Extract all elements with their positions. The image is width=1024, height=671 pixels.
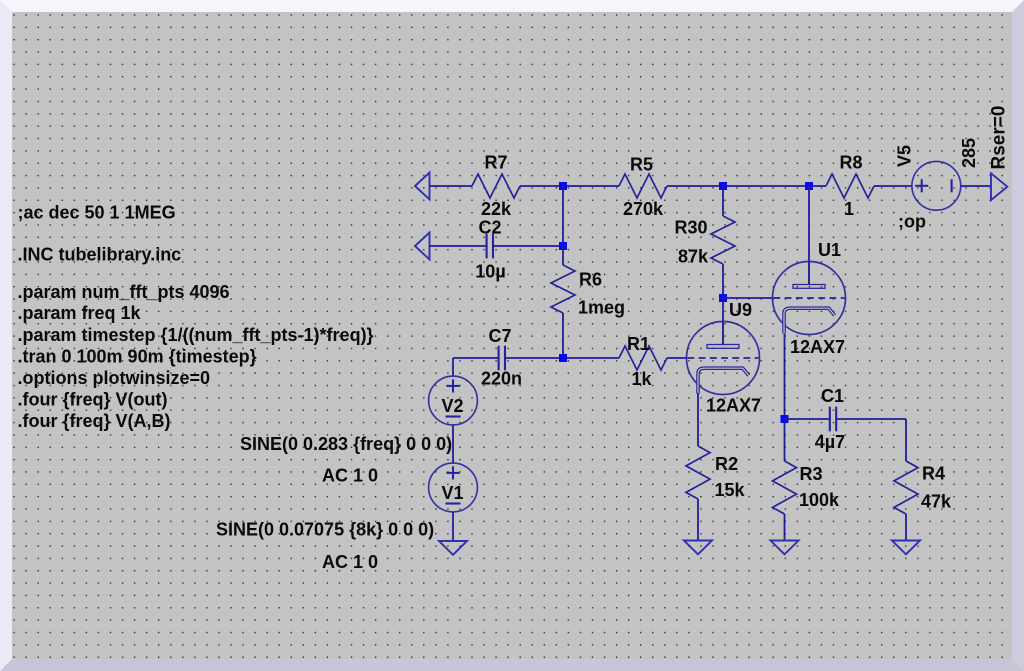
svg-text:Rser=0: Rser=0 (989, 106, 1010, 170)
svg-text:15k: 15k (715, 480, 746, 500)
svg-text:;op: ;op (898, 212, 926, 232)
ground (R2) (684, 541, 712, 555)
ground (V1) (439, 541, 467, 555)
wire (430, 245, 487, 247)
svg-text:1: 1 (844, 199, 854, 219)
svg-text:C1: C1 (821, 386, 844, 406)
voltage source V1 (429, 463, 478, 512)
svg-text:10µ: 10µ (475, 262, 505, 282)
triode U9 (12AX7) (687, 300, 762, 416)
wire (vertical rail R7 row to C2 row) (562, 186, 564, 246)
wire (722, 186, 724, 216)
wire (562, 313, 564, 358)
svg-text:R30: R30 (674, 218, 707, 238)
svg-text:C7: C7 (488, 326, 511, 346)
resistor R4 (894, 461, 952, 514)
capacitor C1 (815, 386, 845, 452)
resistor R1 (619, 334, 667, 389)
svg-text:.param freq 1k: .param freq 1k (18, 303, 142, 323)
node junction (R30/U9 plate/U1 grid) (719, 294, 727, 302)
resistor R5 (619, 155, 667, 220)
node junction (above U1 plate) (805, 182, 813, 190)
wire (U1 grid to node) (723, 297, 773, 299)
svg-text:V1: V1 (441, 483, 463, 503)
svg-text:SINE(0 0.283 {freq} 0 0 0): SINE(0 0.283 {freq} 0 0 0) (240, 434, 452, 454)
svg-text:12AX7: 12AX7 (706, 396, 761, 416)
svg-text:.options plotwinsize=0: .options plotwinsize=0 (18, 368, 211, 388)
wire (493, 245, 563, 247)
wire (697, 499, 699, 541)
ground (R3) (771, 541, 799, 555)
svg-text:V5: V5 (895, 145, 915, 167)
svg-text:12AX7: 12AX7 (790, 337, 845, 357)
svg-text:.INC tubelibrary.inc: .INC tubelibrary.inc (18, 245, 182, 265)
svg-text:87k: 87k (678, 247, 709, 267)
capacitor C2 (475, 218, 505, 282)
svg-text:.param num_fft_pts 4096: .param num_fft_pts 4096 (18, 282, 230, 302)
node junction (R7/R5/R6 rail) (559, 182, 567, 190)
wire (452, 425, 454, 463)
svg-text:1k: 1k (631, 369, 652, 389)
svg-text:R7: R7 (484, 153, 507, 173)
wire (784, 514, 786, 541)
resistor R3 (773, 461, 841, 514)
svg-text:285: 285 (959, 138, 979, 168)
port flag (input) on C2 row (415, 233, 430, 260)
ground (R4) (892, 541, 920, 555)
svg-text:47k: 47k (921, 492, 952, 512)
wire (667, 185, 826, 187)
resistor R6 (551, 265, 625, 318)
wire (785, 418, 830, 420)
triode U1 (12AX7) (773, 240, 846, 357)
node junction (R5/R30) (719, 182, 727, 190)
svg-text:;ac dec 50 1 1MEG: ;ac dec 50 1 1MEG (18, 203, 176, 223)
wire (U1 plate up to rail) (808, 186, 810, 262)
wire (520, 185, 619, 187)
wire (874, 185, 912, 187)
svg-text:U1: U1 (818, 240, 841, 260)
wire (452, 512, 454, 541)
node junction (C2/R6) (559, 242, 567, 250)
svg-text:.tran 0 100m 90m {timestep}: .tran 0 100m 90m {timestep} (18, 347, 257, 367)
resistor R8 (826, 153, 874, 220)
wire (784, 419, 786, 461)
wire (452, 358, 454, 376)
port flag (input) on R7 row (415, 173, 430, 200)
wire (722, 264, 724, 298)
svg-text:.four {freq} V(A,B): .four {freq} V(A,B) (18, 411, 171, 431)
svg-text:AC 1 0: AC 1 0 (322, 552, 378, 572)
wire (905, 419, 907, 461)
svg-text:R4: R4 (922, 464, 945, 484)
svg-text:R1: R1 (627, 334, 650, 354)
wire (505, 357, 619, 359)
svg-text:R3: R3 (800, 464, 823, 484)
svg-text:U9: U9 (729, 300, 752, 320)
wire (961, 185, 991, 187)
wire (905, 514, 907, 541)
svg-text:R5: R5 (630, 155, 653, 175)
svg-text:.param timestep {1/((num_fft_p: .param timestep {1/((num_fft_pts-1)*freq… (18, 325, 374, 345)
svg-text:22k: 22k (481, 199, 512, 219)
node junction (C7/R6/R1) (559, 354, 567, 362)
svg-text:1meg: 1meg (578, 298, 625, 318)
svg-text:4µ7: 4µ7 (815, 432, 845, 452)
resistor R7 (472, 153, 520, 220)
node junction (U1 cathode/C1/R3) (781, 415, 789, 423)
wire (667, 357, 687, 359)
resistor R30 (674, 216, 735, 267)
svg-text:270k: 270k (623, 199, 664, 219)
capacitor C7 (481, 326, 522, 389)
wire (430, 185, 473, 187)
svg-text:.four {freq} V(out): .four {freq} V(out) (18, 390, 168, 410)
wire (836, 418, 906, 420)
wire (562, 246, 564, 265)
voltage source V5 (895, 106, 1010, 232)
svg-text:100k: 100k (799, 490, 840, 510)
svg-text:R2: R2 (715, 454, 738, 474)
wire (453, 357, 499, 359)
voltage source V2 (429, 376, 478, 425)
wire (722, 298, 724, 322)
port flag (output) right of V5 (991, 173, 1007, 200)
wire (U1 cathode down) (784, 334, 786, 420)
resistor R2 (686, 446, 746, 500)
svg-text:220n: 220n (481, 369, 522, 389)
svg-text:R6: R6 (579, 270, 602, 290)
svg-text:AC 1 0: AC 1 0 (322, 466, 378, 486)
svg-text:V2: V2 (441, 396, 463, 416)
wire (U9 cathode down) (697, 393, 699, 446)
svg-text:C2: C2 (478, 218, 501, 238)
svg-text:SINE(0 0.07075 {8k} 0 0 0): SINE(0 0.07075 {8k} 0 0 0) (216, 520, 434, 540)
svg-text:R8: R8 (839, 153, 862, 173)
